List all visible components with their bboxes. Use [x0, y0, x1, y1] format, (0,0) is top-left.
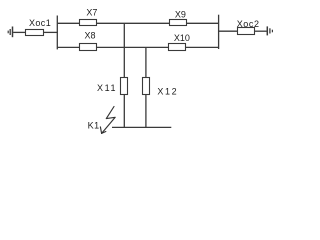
resistor X8	[80, 44, 97, 51]
wire top rail: X7 to X9	[97, 22, 170, 24]
resistor X12	[143, 78, 150, 95]
wire vertical branch 1 upper (top rail to X11)	[123, 23, 125, 77]
wire top rail: X9 to right bus	[187, 22, 219, 24]
svg-text:X8: X8	[85, 31, 96, 41]
svg-text:X7: X7	[86, 8, 97, 18]
resistor Xoc2	[238, 28, 255, 35]
resistor X10	[169, 44, 186, 51]
resistor X7	[80, 20, 97, 26]
wire vertical branch 2 upper (second rail to X12)	[145, 47, 147, 77]
svg-text:X9: X9	[175, 10, 186, 20]
wire top rail: left bus to X7	[57, 22, 80, 24]
svg-text:X10: X10	[174, 33, 190, 43]
wire ground-left to Xoc1	[13, 31, 26, 33]
node right bus	[218, 15, 220, 49]
fault symbol K1 (lightning arrow)	[100, 107, 115, 134]
wire vertical branch 1 lower (X11 to bottom rail)	[123, 95, 125, 128]
wire right bus to Xoc2	[219, 30, 238, 32]
svg-text:X11: X11	[97, 83, 117, 93]
wire second rail: left bus to X8	[57, 46, 80, 48]
wire bottom rail	[112, 126, 171, 128]
ground left	[8, 27, 12, 38]
ground right	[267, 26, 272, 35]
wire second rail: X8 to X10	[97, 46, 169, 48]
wire Xoc1 to left bus	[44, 31, 58, 33]
resistor X9	[170, 20, 187, 26]
wire Xoc2 to ground-right	[255, 30, 267, 32]
svg-text:Xoc1: Xoc1	[29, 18, 51, 28]
wire second rail: X10 to right bus	[186, 46, 219, 48]
resistor Xoc1	[26, 30, 44, 36]
svg-text:K1: K1	[88, 121, 100, 131]
svg-text:X12: X12	[157, 86, 178, 96]
node left bus	[56, 16, 58, 50]
svg-text:Xoc2: Xoc2	[237, 19, 260, 29]
resistor X11	[121, 78, 128, 95]
wire vertical branch 2 lower (X12 to bottom rail)	[145, 95, 147, 128]
